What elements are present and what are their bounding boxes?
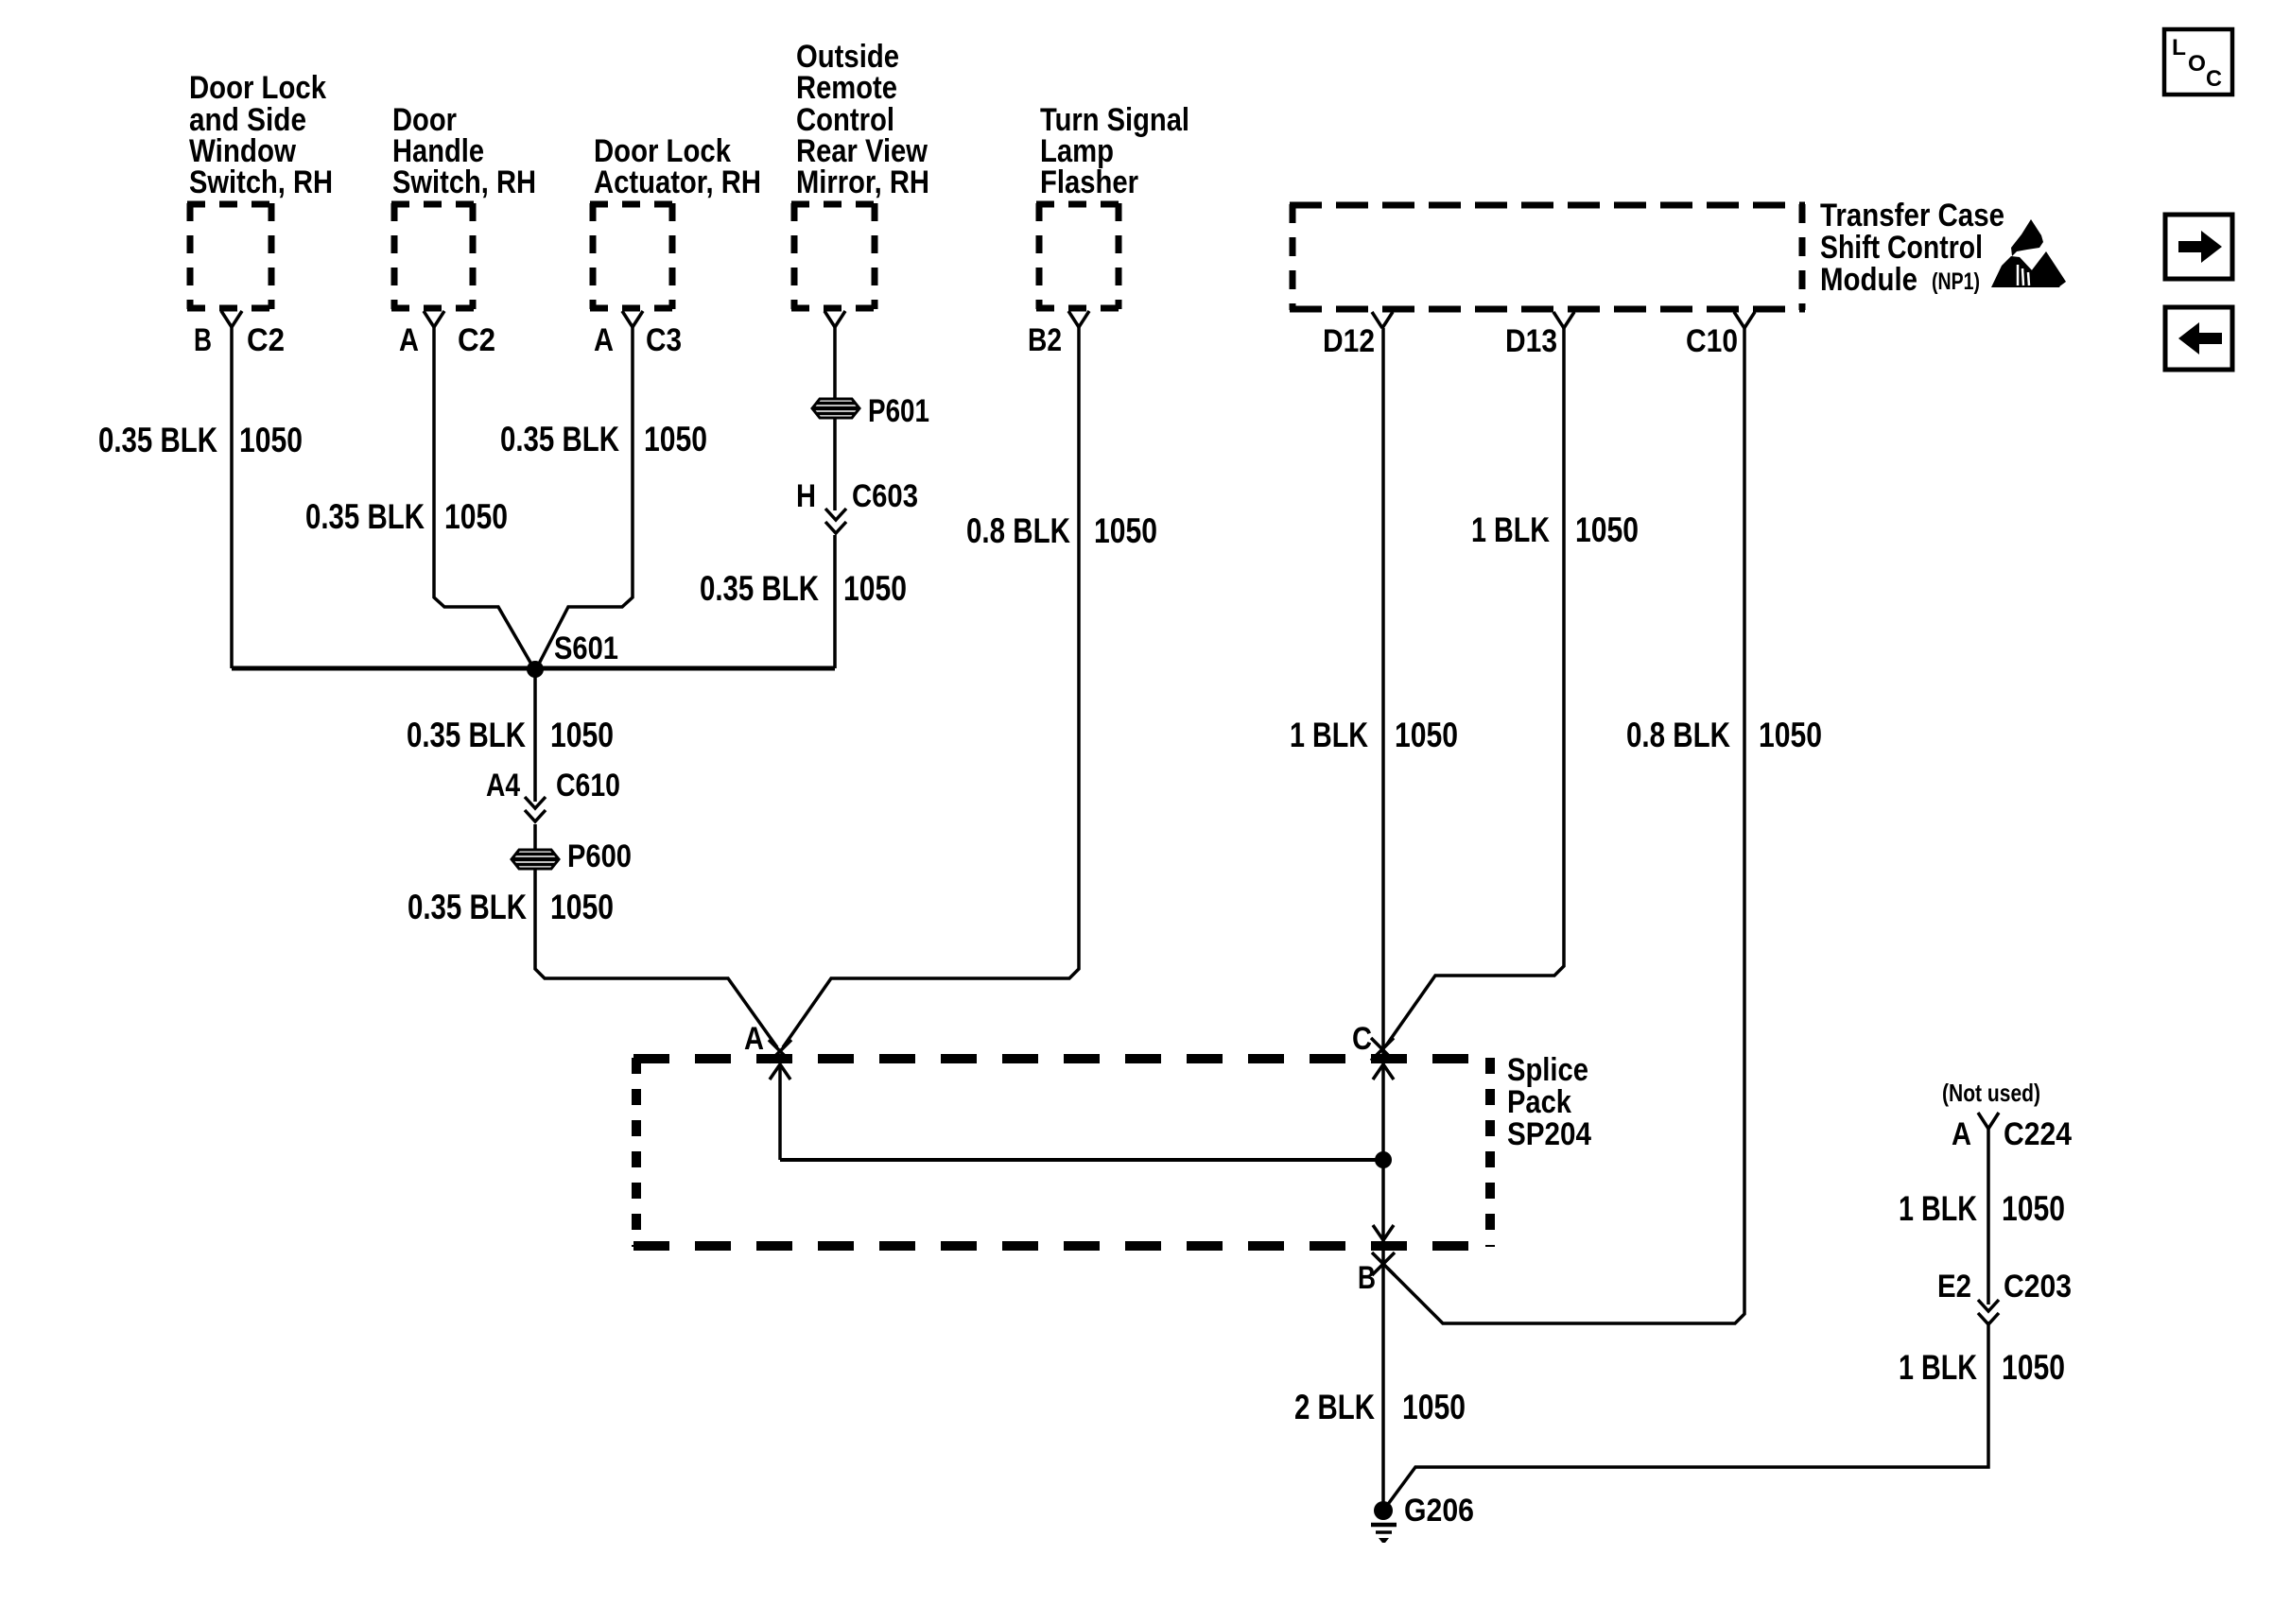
svg-text:0.8 BLK: 0.8 BLK [1626, 716, 1730, 754]
svg-text:C: C [1352, 1021, 1372, 1057]
svg-text:0.35 BLK: 0.35 BLK [305, 497, 425, 536]
svg-text:O: O [2188, 51, 2206, 77]
svg-text:1050: 1050 [1094, 511, 1157, 550]
svg-text:1050: 1050 [1395, 716, 1458, 754]
svg-text:C2: C2 [247, 322, 285, 358]
svg-text:Shift Control: Shift Control [1820, 230, 1983, 266]
svg-text:Module: Module [1820, 262, 1917, 298]
svg-text:2 BLK: 2 BLK [1294, 1388, 1375, 1426]
svg-text:Splice: Splice [1507, 1052, 1588, 1088]
svg-text:(Not used): (Not used) [1942, 1079, 2040, 1107]
svg-text:0.35 BLK: 0.35 BLK [700, 569, 819, 608]
svg-text:1050: 1050 [843, 569, 907, 608]
svg-text:1050: 1050 [1402, 1388, 1466, 1426]
svg-text:C224: C224 [2004, 1116, 2072, 1152]
svg-text:B2: B2 [1028, 322, 1062, 358]
svg-text:P600: P600 [567, 838, 632, 874]
svg-text:(NP1): (NP1) [1932, 268, 1980, 295]
svg-text:0.8 BLK: 0.8 BLK [966, 511, 1070, 550]
svg-text:A4: A4 [486, 768, 520, 803]
svg-text:1050: 1050 [644, 420, 707, 458]
svg-text:C2: C2 [458, 322, 495, 358]
svg-text:Pack: Pack [1507, 1084, 1571, 1120]
svg-text:1050: 1050 [550, 716, 614, 754]
svg-text:Mirror, RH: Mirror, RH [796, 164, 929, 200]
svg-text:1050: 1050 [2002, 1189, 2065, 1228]
svg-text:B: B [194, 322, 212, 358]
svg-text:Remote: Remote [796, 70, 897, 106]
svg-text:1 BLK: 1 BLK [1471, 510, 1550, 549]
svg-text:B: B [1358, 1260, 1376, 1296]
svg-text:1 BLK: 1 BLK [1290, 716, 1368, 754]
svg-text:1050: 1050 [1759, 716, 1822, 754]
svg-text:P601: P601 [868, 393, 929, 429]
svg-text:C203: C203 [2004, 1269, 2072, 1304]
svg-text:S601: S601 [554, 631, 618, 666]
svg-text:E2: E2 [1937, 1269, 1971, 1304]
svg-text:A: A [594, 322, 614, 358]
svg-text:A: A [399, 322, 419, 358]
svg-text:1 BLK: 1 BLK [1899, 1348, 1977, 1387]
svg-text:Switch, RH: Switch, RH [189, 164, 333, 200]
svg-text:C10: C10 [1686, 323, 1738, 359]
svg-text:0.35 BLK: 0.35 BLK [98, 421, 217, 459]
svg-text:D13: D13 [1505, 323, 1557, 359]
svg-text:1050: 1050 [444, 497, 508, 536]
svg-text:0.35 BLK: 0.35 BLK [500, 420, 619, 458]
svg-text:C3: C3 [646, 322, 682, 358]
svg-text:0.35 BLK: 0.35 BLK [408, 888, 527, 926]
svg-text:L: L [2172, 35, 2186, 60]
svg-text:Door Lock: Door Lock [189, 70, 326, 106]
svg-text:Transfer Case: Transfer Case [1820, 198, 2004, 233]
svg-text:1050: 1050 [239, 421, 303, 459]
svg-text:Switch, RH: Switch, RH [392, 164, 536, 200]
svg-text:C610: C610 [556, 768, 620, 803]
svg-text:H: H [796, 478, 816, 514]
svg-text:A: A [744, 1021, 764, 1057]
svg-text:Actuator, RH: Actuator, RH [594, 164, 761, 200]
svg-text:G206: G206 [1404, 1493, 1474, 1529]
svg-text:1050: 1050 [1575, 510, 1639, 549]
svg-text:1050: 1050 [2002, 1348, 2065, 1387]
svg-text:A: A [1952, 1116, 1971, 1152]
svg-text:D12: D12 [1323, 323, 1375, 359]
svg-text:SP204: SP204 [1507, 1116, 1591, 1152]
svg-text:C603: C603 [852, 478, 918, 514]
svg-text:0.35 BLK: 0.35 BLK [407, 716, 526, 754]
svg-text:Flasher: Flasher [1040, 164, 1138, 200]
svg-text:1 BLK: 1 BLK [1899, 1189, 1977, 1228]
svg-text:C: C [2206, 66, 2222, 92]
svg-text:1050: 1050 [550, 888, 614, 926]
